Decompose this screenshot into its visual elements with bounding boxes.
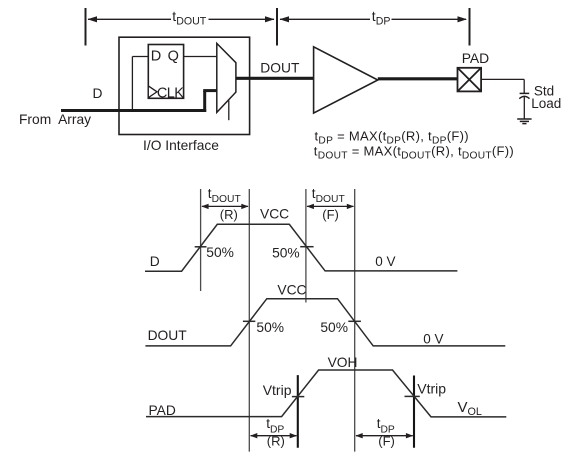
- 50% tick on D rise: [195, 246, 207, 248]
- thick wire into mux: [203, 89, 217, 92]
- capacitor curved plate: [519, 96, 529, 98]
- tDP dimension arrow: [280, 16, 468, 22]
- tDOUT(F) arrow: [307, 204, 355, 209]
- 50% tick on DOUT fall: [348, 320, 361, 322]
- ground symbol: [517, 119, 531, 124]
- 50% tick on D fall: [300, 246, 313, 248]
- thick tick at PAD fall (tDP F end): [413, 376, 415, 448]
- svg-text:50%: 50%: [256, 320, 284, 335]
- Vtrip tick on PAD fall: [405, 395, 420, 397]
- vertical reference line D (DOUT fall 50%): [354, 189, 356, 452]
- svg-text:DOUT: DOUT: [148, 328, 188, 343]
- svg-text:VCC: VCC: [260, 207, 289, 222]
- svg-text:From Array: From Array: [19, 112, 91, 127]
- thick wire From Array (horizontal): [61, 109, 206, 112]
- tDP(F) arrow: [355, 433, 413, 438]
- svg-text:50%: 50%: [320, 320, 348, 335]
- measurement tick middle: [276, 8, 278, 46]
- svg-text:0 V: 0 V: [375, 254, 395, 269]
- mux select stub: [228, 101, 230, 121]
- svg-text:0 V: 0 V: [423, 332, 443, 347]
- svg-text:PAD: PAD: [462, 50, 490, 66]
- svg-text:50%: 50%: [272, 245, 300, 260]
- DOUT waveform: [145, 299, 505, 346]
- wire down to capacitor: [523, 79, 525, 93]
- I/O Interface outer box: [119, 37, 250, 134]
- Vtrip tick on PAD rise: [292, 396, 304, 398]
- thick wire vertical bend: [203, 91, 206, 112]
- tDP(R) arrow: [250, 433, 297, 438]
- tDOUT dimension arrow: [88, 16, 275, 22]
- wire: D input branch vertical: [131, 57, 133, 111]
- wire: D input branch horizontal into FF: [132, 56, 148, 58]
- capacitor C (std load) top plate: [520, 92, 530, 94]
- measurement tick left (tDOUT start): [85, 8, 87, 46]
- wire: FF Q output to mux: [184, 56, 217, 58]
- svg-text:50%: 50%: [206, 245, 234, 260]
- vertical reference line A (D rise 50%): [200, 189, 202, 291]
- wire pad to load: [481, 78, 524, 80]
- PAD crossed-square: [458, 68, 482, 92]
- 50% tick on DOUT rise: [243, 320, 255, 322]
- svg-text:(R): (R): [267, 433, 285, 448]
- vertical reference line C (D fall 50%): [305, 189, 307, 303]
- svg-text:D: D: [151, 49, 161, 65]
- wire capacitor to ground: [523, 97, 525, 119]
- svg-text:D: D: [93, 86, 103, 101]
- svg-text:DOUT: DOUT: [260, 61, 300, 76]
- svg-text:Load: Load: [531, 96, 561, 111]
- svg-text:(F): (F): [322, 207, 339, 222]
- flip-flop U1 box: [148, 45, 183, 99]
- PAD waveform: [146, 370, 506, 417]
- mux trapezoid: [217, 43, 236, 112]
- svg-text:Q: Q: [168, 49, 179, 65]
- svg-text:D: D: [150, 254, 160, 269]
- measurement tick right: [469, 8, 471, 46]
- flip-flop clock triangle: [148, 86, 157, 98]
- svg-text:(F): (F): [378, 433, 395, 448]
- svg-text:CLK: CLK: [157, 85, 184, 101]
- tDOUT(R) arrow: [201, 204, 248, 209]
- thick wire mux output to buffer: [236, 77, 314, 80]
- svg-text:I/O Interface: I/O Interface: [143, 138, 219, 153]
- D waveform: [145, 224, 457, 271]
- thick tick at PAD rise (tDP R end): [297, 375, 299, 448]
- svg-text:PAD: PAD: [149, 403, 176, 418]
- svg-text:VCC: VCC: [277, 282, 306, 297]
- svg-text:VOH: VOH: [328, 355, 358, 370]
- output buffer triangle: [314, 47, 378, 113]
- thick wire buffer to pad: [378, 77, 458, 80]
- vertical reference line B (DOUT rise 50%): [248, 189, 250, 452]
- svg-text:Vtrip: Vtrip: [417, 381, 446, 397]
- svg-text:Vtrip: Vtrip: [263, 382, 292, 398]
- svg-text:(R): (R): [220, 207, 238, 222]
